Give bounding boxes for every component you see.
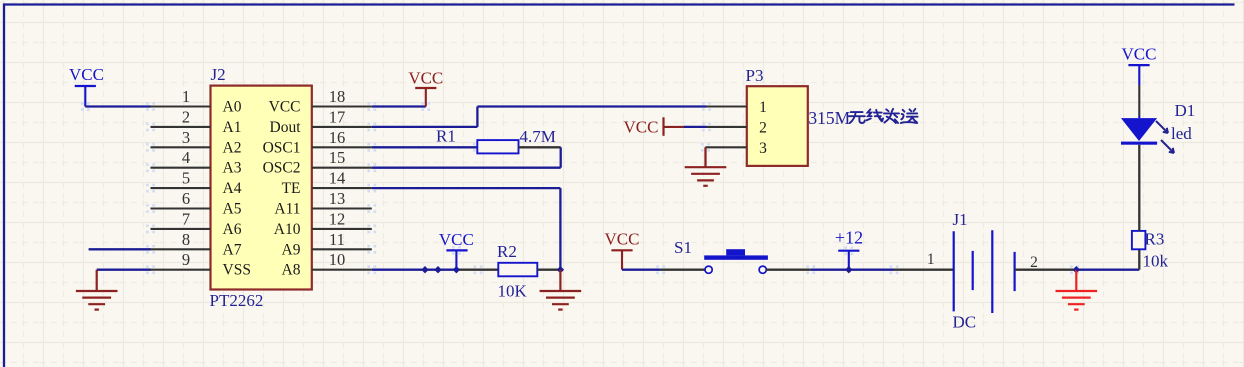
svg-text:3: 3 — [182, 128, 190, 147]
svg-text:R1: R1 — [436, 127, 456, 146]
svg-text:D1: D1 — [1175, 101, 1196, 120]
J2 pin 10 (A8) stub — [282, 250, 372, 279]
svg-text:OSC2: OSC2 — [263, 160, 301, 177]
junction dot J1 pin 2 / ground — [1073, 266, 1080, 273]
connector J1 pin 2 stub — [1015, 254, 1077, 271]
power port VCC (dark red, on J2 pin 18) — [408, 69, 443, 107]
wire VCC to P3 pin 2 — [684, 126, 707, 128]
wire R1 to J2 pin 15 (OSC2) — [372, 147, 561, 167]
junction dot 1 — [421, 266, 428, 273]
svg-text:11: 11 — [329, 230, 345, 249]
svg-text:A1: A1 — [223, 119, 242, 136]
wire P3 pin 3 to ground — [706, 147, 707, 167]
wire R2 to junction — [537, 269, 560, 271]
power port VCC (blue, above R2 net) — [439, 230, 474, 270]
svg-text:A6: A6 — [223, 221, 242, 238]
svg-text:A10: A10 — [274, 221, 301, 238]
svg-text:6: 6 — [182, 189, 190, 208]
svg-text:1: 1 — [182, 87, 190, 106]
J2 pin 11 (A9) stub — [282, 230, 372, 258]
svg-text:VCC: VCC — [605, 230, 640, 249]
svg-text:10k: 10k — [1143, 252, 1169, 271]
svg-text:17: 17 — [329, 107, 346, 126]
svg-text:18: 18 — [329, 87, 346, 106]
svg-text:A4: A4 — [223, 180, 242, 197]
wire S1 to +12 node — [766, 269, 894, 271]
svg-text:VCC: VCC — [408, 69, 443, 88]
svg-text:1: 1 — [759, 99, 767, 116]
P3 pin 2 stub — [707, 119, 767, 136]
J2 pin 17 (Dout) stub — [270, 107, 372, 135]
svg-text:2: 2 — [182, 107, 190, 126]
svg-text:Dout: Dout — [270, 119, 302, 136]
ground GND (below VSS) — [76, 270, 118, 310]
J2 pin 9 (VSS) stub — [151, 250, 251, 279]
P3 pin 3 stub — [707, 140, 768, 157]
svg-text:10: 10 — [329, 250, 346, 269]
svg-text:VSS: VSS — [223, 262, 251, 279]
junction dot at R2/TE/ground — [557, 266, 564, 273]
svg-text:A8: A8 — [282, 262, 301, 279]
power port VCC (dark red, at P3 pin 2) — [624, 117, 684, 136]
svg-text:A9: A9 — [282, 241, 301, 258]
svg-text:13: 13 — [329, 189, 346, 208]
power port VCC (blue, above D1) — [1122, 45, 1157, 66]
svg-text:8: 8 — [182, 230, 190, 249]
svg-text:16: 16 — [329, 128, 346, 147]
J2 pin 4 (A3) stub — [151, 148, 242, 177]
svg-text:PT2262: PT2262 — [210, 291, 264, 310]
junction dot +12 — [845, 266, 852, 273]
power port VCC (dark red, feeds S1) — [605, 230, 640, 270]
power port VCC (blue, feeds J2 pin 1) — [69, 65, 104, 107]
svg-text:14: 14 — [329, 169, 346, 188]
IC U-box J2 PT2262 body — [211, 86, 312, 290]
junction dot 2 — [434, 266, 441, 273]
ground GND (below R2 junction) — [540, 270, 582, 310]
svg-text:R2: R2 — [497, 242, 517, 261]
wire J2 pin 14 (TE) down to R2 junction — [372, 188, 561, 270]
switch S1 push button — [674, 238, 768, 273]
svg-text:led: led — [1171, 124, 1192, 143]
svg-text:TE: TE — [282, 180, 301, 197]
svg-text:1: 1 — [927, 251, 935, 268]
svg-text:9: 9 — [182, 250, 190, 269]
J2 pin 18 (VCC) stub — [269, 87, 372, 116]
junction dot 3 (VCC tap) — [453, 266, 460, 273]
wire J2 pin 18 to VCC — [372, 105, 426, 107]
svg-text:A2: A2 — [223, 139, 242, 156]
wire R3 to LED D1 — [1138, 145, 1140, 231]
wire J2 pin 17 (Dout) riser to P3 pin 1 — [372, 107, 707, 127]
svg-text:2: 2 — [759, 119, 767, 136]
wire D1 to VCC — [1138, 65, 1140, 118]
wire junction to R3 — [1076, 249, 1139, 269]
svg-text:A5: A5 — [223, 201, 242, 218]
resistor R1 body — [477, 140, 518, 153]
svg-text:VCC: VCC — [269, 99, 301, 116]
J2 pin 1 (A0) stub — [151, 87, 242, 116]
J2 pin 16 (OSC1) stub — [263, 128, 372, 157]
LED D1 — [1121, 118, 1174, 153]
wire J2 pin 10 (A8) to R2 — [372, 269, 499, 271]
wire J2 pin 9 (VSS) to ground — [97, 269, 151, 271]
svg-text:3: 3 — [759, 140, 767, 157]
connector J1 pin 1 stub — [894, 251, 954, 270]
svg-text:4: 4 — [182, 148, 190, 167]
ground GND (red, at J1 pin 2) — [1056, 270, 1098, 310]
connector J1 DC jack symbol — [954, 230, 1015, 313]
J2 pin 3 (A2) stub — [151, 128, 242, 157]
wire VCC to J2 pin 1 — [85, 105, 150, 107]
svg-text:315M: 315M — [808, 108, 850, 128]
svg-text:R3: R3 — [1145, 230, 1165, 249]
J2 pin 6 (A5) stub — [151, 189, 242, 218]
resistor R3 body — [1132, 231, 1146, 249]
svg-text:VCC: VCC — [624, 118, 659, 137]
wire J2 pin 8 stub extension — [89, 248, 151, 250]
svg-text:+12: +12 — [835, 228, 863, 248]
svg-text:S1: S1 — [674, 238, 692, 257]
svg-text:OSC1: OSC1 — [263, 139, 301, 156]
svg-text:VCC: VCC — [439, 230, 474, 249]
J2 pin 7 (A6) stub — [151, 209, 242, 238]
J2 pin 8 (A7) stub — [151, 230, 242, 258]
ground GND (below P3 pin 3) — [685, 147, 727, 186]
J2 pin 5 (A4) stub — [151, 169, 242, 198]
connector P3 body — [747, 86, 808, 166]
power port +12 — [835, 228, 863, 270]
svg-text:2: 2 — [1030, 254, 1038, 271]
wire VCC to S1 — [622, 269, 705, 271]
svg-text:A3: A3 — [223, 160, 242, 177]
wire J2 pin 16 (OSC1) to R1 — [372, 146, 478, 148]
svg-text:P3: P3 — [746, 66, 764, 85]
svg-text:15: 15 — [329, 148, 346, 167]
label 315M wireless transmit — [808, 108, 917, 128]
svg-text:J2: J2 — [211, 65, 226, 84]
svg-text:VCC: VCC — [1122, 45, 1157, 64]
J2 pin 2 (A1) stub — [151, 107, 242, 135]
svg-text:4.7M: 4.7M — [520, 127, 556, 146]
svg-text:7: 7 — [182, 209, 190, 228]
svg-text:J1: J1 — [953, 210, 968, 229]
svg-text:A0: A0 — [223, 99, 242, 116]
J2 pin 13 (A11) stub — [274, 189, 371, 218]
J2 pin 14 (TE) stub — [282, 169, 372, 198]
J2 pin 12 (A10) stub — [274, 209, 372, 238]
svg-text:A7: A7 — [223, 241, 242, 258]
P3 pin 1 stub — [707, 99, 767, 116]
resistor R2 body — [498, 263, 537, 277]
svg-text:A11: A11 — [274, 201, 300, 218]
svg-text:5: 5 — [182, 169, 190, 188]
svg-text:VCC: VCC — [69, 65, 104, 84]
svg-text:12: 12 — [329, 209, 346, 228]
svg-text:10K: 10K — [498, 282, 528, 301]
svg-text:DC: DC — [953, 313, 977, 332]
J2 pin 15 (OSC2) stub — [263, 148, 372, 177]
